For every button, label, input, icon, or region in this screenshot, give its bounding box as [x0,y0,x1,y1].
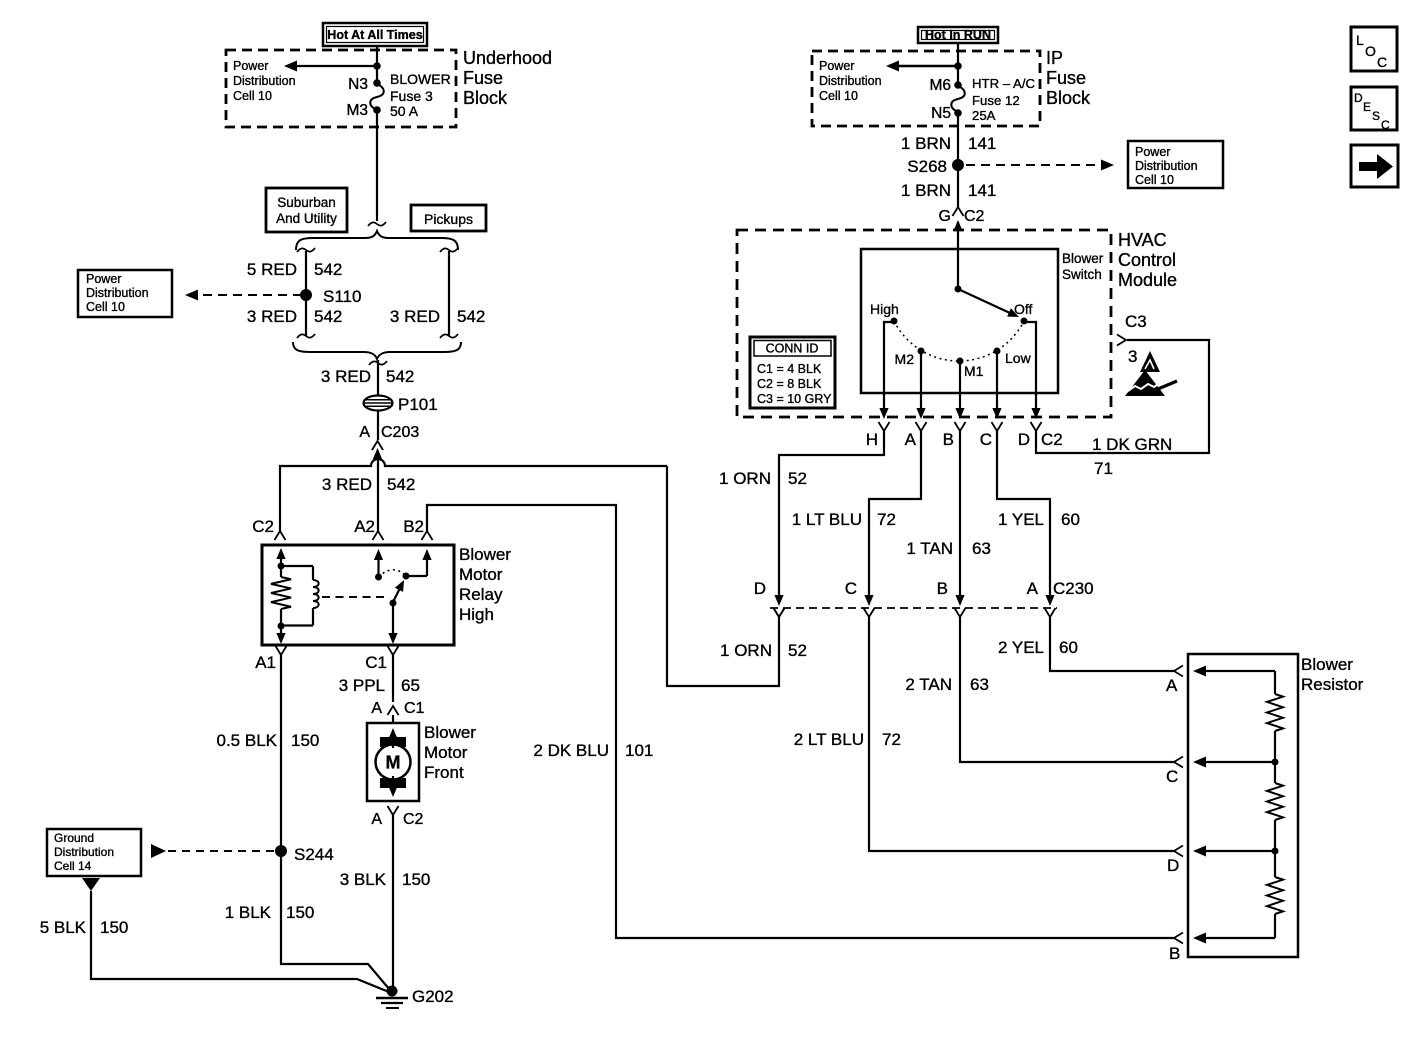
node M6 [929,77,961,94]
wire hot-in-run feed [957,43,959,86]
resistor element R2 [1267,762,1283,851]
relay coil exit arrow [276,626,285,644]
svg-text:1 LT BLU: 1 LT BLU [792,510,862,529]
relay contact (to A2) [374,549,383,581]
relay coil top junction dot [278,563,285,570]
svg-text:B2: B2 [403,517,424,536]
svg-text:A: A [905,430,917,449]
svg-text:Relay: Relay [459,585,503,604]
svg-text:72: 72 [882,730,901,749]
contact Off [1014,301,1033,325]
ip fuse block dashed box [812,51,1040,126]
wire 2 DK BLU 101 (B2 to resistor B) [427,505,1174,938]
svg-text:3 RED: 3 RED [247,307,297,326]
svg-text:0.5 BLK: 0.5 BLK [217,731,278,750]
relay coil branch entry arrow [276,548,285,566]
svg-text:G: G [939,208,951,225]
blower motor front box [367,723,419,801]
svg-text:Pickups: Pickups [424,211,473,227]
svg-text:1 YEL: 1 YEL [998,510,1044,529]
svg-text:Distribution: Distribution [86,286,149,300]
wire M1 to B [955,364,964,419]
svg-text:3 PPL: 3 PPL [339,676,385,695]
svg-text:S244: S244 [294,845,334,864]
flag Hot At All Times [323,23,427,46]
svg-text:Fuse 12: Fuse 12 [972,93,1020,108]
svg-text:Fuse: Fuse [1046,68,1086,88]
svg-text:A: A [359,424,370,441]
hvac terminal C [980,422,1003,449]
wire 2 YEL 60 (to resistor A) [1050,617,1174,671]
wire into blower switch [957,222,959,289]
label HVAC Control Module [1118,230,1177,290]
svg-text:Motor: Motor [459,565,503,584]
svg-text:Fuse: Fuse [463,68,503,88]
splice S110 [300,287,361,306]
svg-text:A2: A2 [354,517,375,536]
svg-text:150: 150 [100,918,128,937]
resistor terminal A [1166,666,1275,696]
svg-text:3 BLK: 3 BLK [340,870,387,889]
svg-text:S: S [1372,109,1380,123]
svg-text:Cell 10: Cell 10 [233,89,272,103]
box Pickups [411,205,486,231]
label 0.5 BLK 150 [217,731,320,750]
svg-text:C3: C3 [1125,312,1147,331]
svg-text:65: 65 [401,676,420,695]
relay contact dotted arc [379,570,407,577]
svg-text:HVAC: HVAC [1118,230,1167,250]
svg-text:B: B [1169,944,1180,963]
arrow to power distribution [284,61,377,72]
svg-text:D: D [754,579,766,598]
svg-text:C1: C1 [365,653,387,672]
svg-text:Fuse 3: Fuse 3 [390,88,433,104]
svg-text:High: High [459,605,494,624]
svg-text:Low: Low [1005,350,1032,366]
svg-text:542: 542 [314,307,342,326]
wire hot-at-all-times feed [376,46,378,83]
node N5 [931,105,962,122]
resistor junction dot C [1272,759,1279,766]
svg-text:C230: C230 [1053,579,1094,598]
junction dot at ip fuse feed [954,62,962,70]
svg-text:52: 52 [788,641,807,660]
svg-text:101: 101 [625,741,653,760]
svg-text:52: 52 [788,469,807,488]
svg-text:542: 542 [387,475,415,494]
svg-text:A: A [1027,579,1039,598]
wire High to H [879,322,892,419]
resistor element R3 [1267,851,1283,938]
esd warning symbol small [1140,351,1160,372]
motor exit arrow [388,776,397,797]
wire 1 LT BLU 72 (A to C230-C) [864,431,921,606]
svg-text:M: M [386,753,401,773]
svg-text:BLOWER: BLOWER [390,71,451,87]
svg-text:542: 542 [457,307,485,326]
svg-text:C3 = 10 GRY: C3 = 10 GRY [757,392,832,406]
svg-text:Cell 14: Cell 14 [54,859,92,873]
wire 1 BRN 141 [957,113,959,207]
label Blower Resistor [1301,655,1364,694]
label Power Distribution Cell 10 (ip) [819,59,882,103]
label 1 DK GRN 71 [1092,435,1172,478]
c230 fork C [864,608,875,617]
splice S244 [275,845,334,864]
svg-text:L: L [1356,32,1364,48]
esd warning symbol large [1125,370,1177,396]
fuse HTR A/C Fuse 12 25A [951,76,1035,123]
label 2 LT BLU 72 [794,730,901,749]
wire 2 TAN 63 (to resistor C) [960,617,1174,762]
svg-text:P101: P101 [398,395,438,414]
label Blower Motor Front [424,723,476,782]
svg-text:72: 72 [877,510,896,529]
svg-text:C2: C2 [252,517,274,536]
svg-text:Front: Front [424,763,464,782]
svg-text:High: High [870,301,899,317]
label IP Fuse Block [1046,48,1091,108]
svg-text:Cell 10: Cell 10 [1135,173,1174,187]
svg-text:C203: C203 [381,424,419,441]
svg-text:Blower: Blower [1301,655,1353,674]
hvac terminal B [943,422,966,449]
fuse BLOWER Fuse 3 50 A [370,71,450,119]
c230 fork D [774,608,785,617]
splice S268 [907,157,964,176]
label 1 YEL 60 [998,510,1080,529]
box Suburban And Utility [266,188,347,232]
svg-text:D: D [1354,91,1363,105]
connector C230 dashed line [770,607,1057,609]
svg-text:Distribution: Distribution [1135,159,1198,173]
svg-text:71: 71 [1094,459,1113,478]
svg-text:5 RED: 5 RED [247,260,297,279]
flag Hot In RUN [918,27,998,43]
wire 3 BLK 150 [392,815,394,991]
svg-text:Blower: Blower [459,545,511,564]
label C230 terminals [754,579,1094,598]
label 1 TAN 63 [906,539,991,558]
label 1 BRN 141 (upper) [901,134,996,153]
svg-text:Motor: Motor [424,743,468,762]
relay terminal A2 [354,517,383,540]
wire 1 TAN 63 (B to C230-B) [955,431,964,606]
svg-text:25A: 25A [972,108,996,123]
hvac terminal H [866,422,890,449]
label 1 BRN 141 (lower) [901,181,996,200]
junction dot at fuse feed [373,62,381,70]
relay coil [281,566,319,626]
wire 3 RED 542 to P101 [369,360,387,440]
contact M2 [895,348,925,368]
wire Low to C [992,354,1001,419]
box Power Distribution Cell 10 (left) [78,270,172,317]
svg-text:B: B [943,430,954,449]
icon DESC button [1351,87,1397,132]
dashed reference to power distribution cell 10 [966,160,1114,171]
icon LOC button [1351,27,1397,71]
svg-text:Control: Control [1118,250,1176,270]
wire 1 DK GRN 71 (D/C2 to C3) [1036,340,1209,453]
resistor junction dot D [1272,848,1279,855]
svg-text:A: A [371,811,382,828]
svg-text:C2: C2 [403,811,424,828]
underhood fuse block dashed box [226,50,456,127]
svg-text:1 BRN: 1 BRN [901,134,951,153]
node N3 [348,76,381,93]
label Blower Motor Relay High [459,545,511,624]
label 5 BLK 150 [40,918,129,937]
relay resistor [271,566,291,626]
label C2 (hvac bottom) [1041,430,1063,449]
blower switch box [861,249,1058,393]
relay terminal C1 [365,646,398,672]
svg-text:1 BRN: 1 BRN [901,181,951,200]
c230 fork B [955,608,966,617]
wire 5 BLK 150 from ground distribution [82,878,389,992]
svg-text:Switch: Switch [1062,267,1102,282]
brace merge bottom [293,342,461,359]
relay terminal A1 [255,646,286,672]
svg-text:Block: Block [1046,88,1091,108]
blower resistor box [1188,654,1298,957]
svg-text:Ground: Ground [54,831,94,845]
svg-text:60: 60 [1059,638,1078,657]
relay switch arm [393,580,404,602]
connector C3 pin 3 [1117,312,1147,366]
svg-text:O: O [1365,43,1376,59]
box Power Distribution Cell 10 (right) [1128,141,1223,188]
label 3 RED 542 (left lower) [247,307,342,326]
svg-text:141: 141 [968,181,996,200]
svg-text:Power: Power [233,59,268,73]
svg-text:B: B [937,579,948,598]
svg-text:S110: S110 [323,287,361,306]
svg-text:HTR – A/C: HTR – A/C [972,76,1035,91]
svg-text:Blower: Blower [1062,251,1104,266]
dashed reference to power distribution [185,290,306,301]
svg-text:3 RED: 3 RED [390,307,440,326]
svg-text:E: E [1363,100,1371,114]
label Underhood Fuse Block [463,48,552,108]
wire 1 YEL 60 (C to C230-A) [997,431,1055,606]
contact High [870,301,899,325]
hvac terminal A [905,422,927,449]
svg-text:1 DK GRN: 1 DK GRN [1092,435,1172,454]
svg-text:D: D [1018,430,1030,449]
svg-text:542: 542 [314,260,342,279]
c230 fork A [1045,608,1056,617]
wire 3 PPL 65 [392,655,394,702]
svg-text:M1: M1 [964,363,984,379]
hvac terminal D [1018,422,1042,449]
svg-text:C2: C2 [964,208,985,225]
svg-text:3 RED: 3 RED [322,475,372,494]
wire Off to D [1026,322,1041,419]
svg-text:Suburban: Suburban [277,195,336,210]
svg-text:Cell 10: Cell 10 [86,300,125,314]
svg-text:Distribution: Distribution [819,74,882,88]
svg-text:A: A [1166,676,1178,695]
label 3 RED 542 (feed) [321,367,414,386]
svg-text:C: C [980,430,992,449]
svg-text:N3: N3 [348,76,368,93]
svg-text:Distribution: Distribution [54,845,114,859]
wire 2 LT BLU 72 (to resistor D) [869,617,1174,851]
label 2 DK BLU 101 [533,741,653,760]
svg-text:Power: Power [1135,145,1170,159]
brace split top [296,231,458,250]
label Blower Switch [1062,251,1104,282]
svg-text:2 TAN: 2 TAN [905,675,952,694]
label 1 ORN 52 (lower) [720,641,807,660]
svg-text:63: 63 [972,539,991,558]
svg-text:Blower: Blower [424,723,476,742]
svg-text:Cell 10: Cell 10 [819,89,858,103]
wire C203 to relay A2 [377,455,379,531]
relay coil bottom junction dot [278,623,285,630]
svg-text:141: 141 [968,134,996,153]
svg-text:C: C [1377,54,1387,70]
connector C2 (hvac feed) [939,207,985,231]
svg-text:C1 = 4 BLK: C1 = 4 BLK [757,362,822,376]
svg-text:C2: C2 [1041,430,1063,449]
wire segment left (Suburban) [297,248,315,338]
resistor terminal D [1167,846,1275,876]
svg-text:150: 150 [291,731,319,750]
grommet P101 [364,395,438,414]
svg-text:C: C [1166,767,1178,786]
svg-text:Hot At All Times: Hot At All Times [327,28,422,42]
contact M1 [957,358,984,380]
svg-text:H: H [866,430,878,449]
blower switch common junction dot [955,286,962,293]
conn id table [750,337,835,408]
connector C2 (motor) [371,806,423,828]
relay terminal C2 [252,517,285,540]
relay contact (to B2) [403,549,432,580]
svg-text:1 BLK: 1 BLK [225,903,272,922]
svg-text:3 RED: 3 RED [321,367,371,386]
svg-text:M2: M2 [895,351,915,367]
svg-text:542: 542 [386,367,414,386]
svg-text:S268: S268 [907,157,947,176]
svg-text:1 TAN: 1 TAN [906,539,953,558]
svg-text:5 BLK: 5 BLK [40,918,87,937]
svg-text:IP: IP [1046,48,1063,68]
svg-text:Power: Power [86,272,121,286]
svg-text:G202: G202 [412,987,454,1006]
svg-text:Block: Block [463,88,508,108]
svg-text:C1: C1 [404,700,425,717]
blower motor relay high box [262,545,454,645]
label 1 ORN 52 (upper) [719,469,807,488]
relay terminal B2 [403,517,432,540]
wire 1 BLK 150 [281,851,390,990]
label Power Distribution Cell 10 (underhood) [233,59,296,103]
svg-text:C2 = 8 BLK: C2 = 8 BLK [757,377,822,391]
svg-text:M3: M3 [346,102,368,119]
label 3 PPL 65 [339,676,420,695]
wire M2 to A [916,354,925,419]
label 2 YEL 60 [998,638,1078,657]
svg-text:1 ORN: 1 ORN [720,641,772,660]
resistor terminal C [1166,757,1275,787]
box Ground Distribution Cell 14 [47,829,141,876]
svg-text:Underhood: Underhood [463,48,552,68]
motor entry arrow [388,728,397,748]
svg-text:Hot In RUN: Hot In RUN [925,28,991,42]
svg-text:Module: Module [1118,270,1177,290]
wire coil feed from C230-D to relay C2 [280,459,785,686]
dashed reference to ground distribution [151,844,281,858]
svg-text:Resistor: Resistor [1301,675,1364,694]
svg-text:C: C [845,579,857,598]
ground G202 [376,986,454,1009]
svg-text:D: D [1167,856,1179,875]
svg-text:N5: N5 [931,105,951,122]
wire 0.5 BLK 150 [280,655,282,851]
svg-text:Off: Off [1014,301,1033,317]
blower switch wiper arrow [958,289,1019,317]
wire fuse output [368,110,386,226]
svg-text:2 YEL: 2 YEL [998,638,1044,657]
svg-text:M6: M6 [929,77,951,94]
icon arrow button [1351,145,1398,187]
label 3 BLK 150 [340,870,431,889]
label 5 RED 542 [247,260,342,279]
svg-text:1 ORN: 1 ORN [719,469,771,488]
svg-text:2 DK BLU: 2 DK BLU [533,741,609,760]
svg-text:A1: A1 [255,653,276,672]
node M3 [346,102,380,119]
svg-text:150: 150 [402,870,430,889]
label 3 RED 542 (right) [390,307,485,326]
svg-text:Power: Power [819,59,854,73]
label 1 LT BLU 72 [792,510,896,529]
svg-text:63: 63 [970,675,989,694]
label 3 RED 542 (relay) [322,475,415,494]
relay switch pivot [388,600,397,645]
connector C203 [359,424,419,459]
wire segment right (Pickups) [440,248,458,338]
svg-text:CONN ID: CONN ID [766,342,819,356]
blower motor symbol [376,737,411,788]
arrow to power distribution (ip) [886,61,958,72]
hvac control module dashed box [737,230,1111,417]
label 1 BLK 150 [225,903,315,922]
svg-text:150: 150 [286,903,314,922]
contact Low [994,348,1032,367]
svg-text:And Utility: And Utility [276,211,337,226]
svg-text:3: 3 [1128,347,1137,366]
svg-text:A: A [371,700,382,717]
relay actuation dashed link [322,596,387,598]
resistor terminal B [1169,933,1275,964]
svg-text:60: 60 [1061,510,1080,529]
wire 1 ORN 52 (H to C230-D) [774,431,884,606]
resistor element R1 [1267,671,1283,762]
connector C1 (motor) [371,700,424,723]
switch rotary dotted arc [894,321,1024,361]
svg-text:2 LT BLU: 2 LT BLU [794,730,864,749]
svg-text:50 A: 50 A [390,103,419,119]
svg-text:C: C [1381,118,1390,132]
label 2 TAN 63 [905,675,989,694]
svg-text:Distribution: Distribution [233,74,296,88]
